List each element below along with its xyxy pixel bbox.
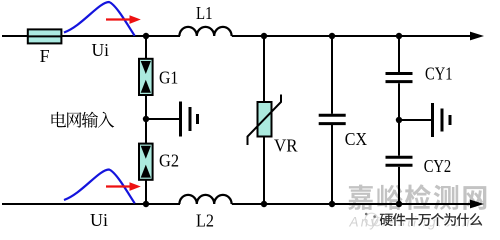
wire branch CX lower: [331, 125, 333, 204]
wire top arrowhead: [470, 32, 484, 41]
node dot top G: [143, 33, 149, 39]
arrester G1: [139, 59, 153, 95]
svg-text:L1: L1: [196, 3, 213, 23]
wire bottom arrowhead: [470, 200, 484, 209]
node dot mid CY: [396, 117, 402, 123]
wire top line L: [2, 35, 180, 37]
ground left: [181, 102, 198, 137]
wire branch CX upper (x=332): [331, 36, 333, 114]
node dot bottom CY: [396, 201, 402, 207]
wire branch CY bottom: [398, 167, 400, 204]
wire branch VR (x=264): [263, 36, 265, 204]
watermark 硬件十万个为什么: [380, 213, 483, 226]
node dot bottom G: [143, 201, 149, 207]
surge pulse curve bottom: [64, 170, 135, 204]
inductor L1: [179, 27, 231, 36]
watermark logo circle: [365, 213, 381, 226]
surge pulse curve top: [64, 2, 135, 36]
node dot mid G: [143, 116, 149, 122]
capacitor CY2: [386, 157, 413, 165]
svg-text:G1: G1: [159, 67, 178, 87]
wire branch CY mid: [398, 83, 400, 156]
ground right tap wire: [399, 119, 431, 121]
varistor VR: [248, 95, 282, 146]
svg-text:F: F: [40, 46, 50, 66]
svg-text:CY2: CY2: [424, 156, 452, 176]
svg-text:G2: G2: [159, 151, 179, 171]
fuse F: [28, 29, 62, 43]
ground left tap wire: [146, 118, 179, 120]
node dot top CX: [329, 33, 335, 39]
wire branch CY top (x=399): [398, 36, 400, 72]
svg-text:Ui: Ui: [92, 40, 110, 60]
wire branch G (x=146): [145, 36, 147, 204]
svg-text:CY1: CY1: [425, 64, 453, 84]
node dot bottom VR: [261, 201, 267, 207]
node dot bottom CX: [329, 201, 335, 207]
red arrow top: [106, 15, 141, 24]
svg-text:VR: VR: [274, 136, 298, 156]
ground right: [433, 103, 451, 137]
node dot top VR: [261, 33, 267, 39]
capacitor CX: [319, 115, 346, 123]
watermark 嘉峪检测网: [348, 184, 486, 210]
node dot top CY: [396, 33, 402, 39]
svg-text:Ui: Ui: [90, 210, 108, 230]
svg-text:L2: L2: [196, 210, 214, 230]
label 电网输入: [52, 112, 115, 128]
svg-text:CX: CX: [345, 129, 367, 149]
arrester G2: [139, 144, 153, 180]
wire bottom line N: [2, 203, 180, 205]
inductor L2: [179, 195, 231, 204]
capacitor CY1: [386, 74, 413, 82]
red arrow bottom: [106, 182, 141, 191]
